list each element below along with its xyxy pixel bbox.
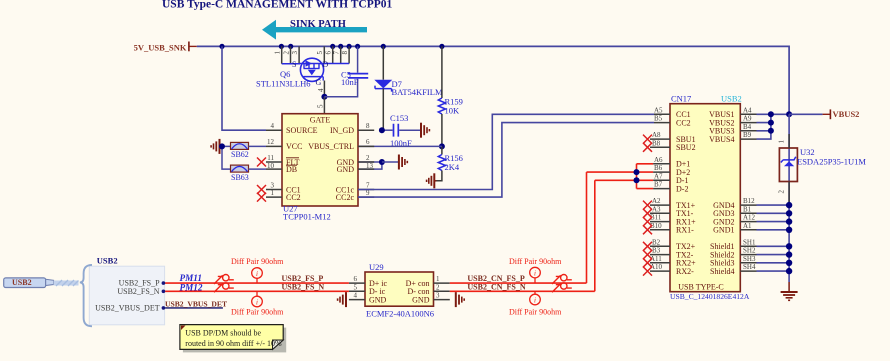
svg-text:D-2: D-2 xyxy=(676,184,688,193)
svg-text:SH2: SH2 xyxy=(743,247,756,255)
svg-text:TCPP01-M12: TCPP01-M12 xyxy=(283,211,331,221)
wire VBUS2 port link xyxy=(789,109,859,119)
ground for SB62 VCC xyxy=(211,139,222,154)
svg-text:6: 6 xyxy=(354,275,358,283)
resistor R156 xyxy=(437,146,463,180)
port 5V_USB_SNK xyxy=(134,42,197,53)
USB2 cable connector xyxy=(4,278,54,288)
svg-text:S: S xyxy=(292,60,296,69)
no-connect X on U27 pin 1 xyxy=(257,193,266,202)
svg-text:GATE: GATE xyxy=(310,116,331,125)
svg-text:3: 3 xyxy=(291,51,299,55)
labels PM11 PM12 xyxy=(180,273,203,293)
transistor Q6 symbol xyxy=(300,58,324,81)
svg-text:B1: B1 xyxy=(743,205,752,213)
svg-text:VBUS4: VBUS4 xyxy=(709,135,734,144)
svg-text:B9: B9 xyxy=(743,131,752,139)
U29 pin numbers xyxy=(354,275,441,300)
diode D7 BAT54KFILM xyxy=(374,46,443,130)
U27 left pin stubs xyxy=(266,130,282,197)
svg-text:STL11N3LLH6: STL11N3LLH6 xyxy=(256,79,310,89)
svg-text:B8: B8 xyxy=(652,139,661,147)
wire U27 pin6 VBUS_CTRL to R nodes xyxy=(358,145,442,147)
wire VBUS group to vertical bus xyxy=(757,111,793,139)
diff pair twist icon CN_FS_N xyxy=(552,283,572,293)
capacitor C153 xyxy=(382,113,421,148)
svg-text:SH3: SH3 xyxy=(743,255,756,263)
svg-text:BAT54KFILM: BAT54KFILM xyxy=(392,87,443,97)
wire USB2_CN_FS_N vertical xyxy=(594,180,596,291)
svg-text:ECMF2-40A100N6: ECMF2-40A100N6 xyxy=(366,309,434,319)
sink path arrow xyxy=(262,19,367,40)
svg-text:SH1: SH1 xyxy=(743,238,756,246)
svg-text:4: 4 xyxy=(271,122,275,130)
note marker triangle xyxy=(181,326,186,331)
svg-text:U32: U32 xyxy=(800,147,815,157)
svg-text:10nF: 10nF xyxy=(341,77,359,87)
CN17 right pin names xyxy=(709,110,734,276)
wire gate node to U27 GATE pin 5 xyxy=(323,97,325,114)
svg-text:USB2: USB2 xyxy=(721,94,742,104)
svg-text:USB Type-C MANAGEMENT WITH TCP: USB Type-C MANAGEMENT WITH TCPP01 xyxy=(162,0,392,11)
directive circle i diff pair FS_N xyxy=(252,291,263,307)
svg-text:USB2: USB2 xyxy=(12,278,32,287)
node VCC SB62 junction xyxy=(219,143,231,169)
svg-text:SINK PATH: SINK PATH xyxy=(290,19,346,30)
svg-text:RX1-: RX1- xyxy=(676,226,694,235)
svg-text:10K: 10K xyxy=(445,106,461,116)
no-connect X on U27 pin 11 xyxy=(257,158,266,167)
ESD diode U32 xyxy=(778,134,867,203)
svg-text:CC2c: CC2c xyxy=(336,193,355,202)
svg-text:B2: B2 xyxy=(652,238,661,246)
transistor Q2 source pin stubs xyxy=(282,46,300,63)
svg-text:D: D xyxy=(323,60,329,69)
CN17 right pin stubs xyxy=(740,114,756,271)
Q6 designator and value xyxy=(256,69,310,89)
svg-text:routed in 90 ohm diff +/- 10%: routed in 90 ohm diff +/- 10% xyxy=(185,339,282,348)
CN17 right pin designators xyxy=(743,106,756,271)
svg-text:USB2_FS_N: USB2_FS_N xyxy=(117,287,159,296)
svg-text:VCC: VCC xyxy=(286,142,302,151)
harness member names xyxy=(95,279,160,313)
svg-text:SOURCE: SOURCE xyxy=(286,126,318,135)
svg-text:4: 4 xyxy=(354,292,358,300)
svg-text:GND1: GND1 xyxy=(713,226,734,235)
svg-text:CC2: CC2 xyxy=(676,118,691,127)
CN17 left pin stubs xyxy=(650,114,670,271)
svg-text:ESDA25P35-1U1M: ESDA25P35-1U1M xyxy=(797,157,866,167)
svg-text:VBUS2: VBUS2 xyxy=(833,109,860,119)
filter U29 ECMF2 body xyxy=(365,272,434,306)
ground for CN17 xyxy=(781,282,798,300)
svg-text:USB2_CN_FS_N: USB2_CN_FS_N xyxy=(467,282,525,291)
ground for U29 pin3 xyxy=(456,292,464,307)
harness panel USB2 xyxy=(89,266,164,325)
svg-text:C153: C153 xyxy=(390,113,408,123)
wire D+ net jumper at CN17 xyxy=(587,164,654,189)
svg-text:VBUS_CTRL: VBUS_CTRL xyxy=(308,142,354,151)
svg-text:A12: A12 xyxy=(743,214,756,222)
svg-text:8: 8 xyxy=(366,122,370,130)
svg-text:A8: A8 xyxy=(652,131,661,139)
Q6 S D G terminal letters xyxy=(292,60,329,87)
transistor Q6 drain pin stubs xyxy=(320,46,349,63)
svg-text:USB2_FS_N: USB2_FS_N xyxy=(282,282,325,291)
note box xyxy=(180,325,283,350)
svg-text:6: 6 xyxy=(366,138,370,146)
svg-text:2K4: 2K4 xyxy=(445,162,460,172)
svg-text:USB_C_12401826E412A: USB_C_12401826E412A xyxy=(670,292,750,301)
svg-text:2: 2 xyxy=(778,190,786,194)
svg-text:A7: A7 xyxy=(654,172,663,180)
svg-text:2: 2 xyxy=(366,154,370,162)
svg-text:A1: A1 xyxy=(743,222,752,230)
svg-text:B3: B3 xyxy=(652,247,661,255)
wire USB2_CN_FS_N horizontal xyxy=(450,290,595,292)
diff pair twist icon FS_N xyxy=(214,283,234,293)
wire source branch to U27 pin4 xyxy=(222,46,266,130)
CN17 designator and harness type xyxy=(671,94,742,104)
wire Q6 gate to node xyxy=(321,81,327,100)
svg-text:2: 2 xyxy=(436,283,440,291)
ground for U27 GND pins xyxy=(399,155,407,170)
directive circle i diff pair FS_P xyxy=(252,268,263,283)
connector CN17 body xyxy=(670,104,740,292)
wire USB2_FS_P xyxy=(165,282,349,284)
svg-text:A2: A2 xyxy=(652,197,661,205)
svg-text:1: 1 xyxy=(271,189,275,197)
directive circle i diff pair CN_FS_N xyxy=(530,291,541,305)
svg-text:5: 5 xyxy=(317,104,325,108)
svg-text:6: 6 xyxy=(325,51,333,55)
svg-text:3: 3 xyxy=(436,292,440,300)
svg-text:SB63: SB63 xyxy=(231,173,249,182)
svg-text:11: 11 xyxy=(267,154,274,162)
svg-text:7: 7 xyxy=(333,51,341,55)
note box shadow xyxy=(183,328,286,353)
harness brace xyxy=(80,265,92,326)
svg-text:A5: A5 xyxy=(654,106,663,114)
svg-text:A9: A9 xyxy=(743,115,752,123)
capacitor C5 xyxy=(324,46,368,96)
svg-text:A6: A6 xyxy=(654,156,663,164)
node VBUS_CTRL junction xyxy=(439,143,445,149)
svg-text:B6: B6 xyxy=(654,164,663,172)
svg-text:USB2_VBUS_DET: USB2_VBUS_DET xyxy=(165,299,227,308)
svg-text:5: 5 xyxy=(316,51,324,55)
svg-text:SH4: SH4 xyxy=(743,263,756,271)
wire USB2_VBUS_DET xyxy=(165,307,223,309)
U27 pin names xyxy=(286,116,354,202)
no-connect X on U27 pin 3 xyxy=(257,185,266,194)
svg-text:12: 12 xyxy=(267,138,275,146)
CN17 bottom labels xyxy=(670,283,750,301)
diff pair twist icon CN_FS_P xyxy=(552,275,572,285)
U27 right pin stubs xyxy=(358,130,374,197)
svg-text:U29: U29 xyxy=(369,262,384,272)
svg-text:Shield4: Shield4 xyxy=(710,267,734,276)
Q6 source pin numbers 1 2 3 xyxy=(274,51,300,55)
svg-text:1: 1 xyxy=(436,275,440,283)
svg-text:CN17: CN17 xyxy=(671,94,691,104)
wire USB2_CN_FS_P horizontal xyxy=(450,282,587,284)
svg-text:USB DP/DM should be: USB DP/DM should be xyxy=(185,329,261,338)
note text xyxy=(185,329,282,348)
svg-text:1: 1 xyxy=(778,140,786,144)
wire U27 pin2 pin13 GND tie xyxy=(358,159,399,169)
ground for U29 pin4 xyxy=(338,292,346,307)
svg-text:B7: B7 xyxy=(654,181,663,189)
svg-text:GND: GND xyxy=(369,295,387,304)
svg-text:i: i xyxy=(534,270,536,278)
svg-text:B4: B4 xyxy=(743,123,752,131)
svg-text:A4: A4 xyxy=(743,106,752,114)
wire CC2c to CN17 CC2 xyxy=(358,123,654,198)
svg-text:DB: DB xyxy=(286,165,297,174)
svg-text:Q6: Q6 xyxy=(280,69,290,79)
note fold corner xyxy=(273,340,284,349)
svg-text:USB2_VBUS_DET: USB2_VBUS_DET xyxy=(95,304,160,313)
wire CC1c to CN17 CC1 xyxy=(358,114,654,189)
svg-text:Diff Pair 90ohm: Diff Pair 90ohm xyxy=(231,308,284,317)
CN17 left pin designators xyxy=(650,106,663,271)
wire USB2_CN_FS_P vertical xyxy=(586,172,588,283)
svg-text:i: i xyxy=(256,270,258,278)
svg-text:8: 8 xyxy=(341,51,349,55)
svg-text:IN_GD: IN_GD xyxy=(330,126,354,135)
svg-text:SBU2: SBU2 xyxy=(676,143,696,152)
svg-text:2: 2 xyxy=(282,51,290,55)
svg-text:GND: GND xyxy=(337,165,355,174)
svg-text:B12: B12 xyxy=(743,197,755,205)
wire CN17 GND pins to bus xyxy=(757,202,793,233)
svg-text:PM11: PM11 xyxy=(180,273,202,283)
svg-text:1: 1 xyxy=(274,51,282,55)
wire VBUS vertical through U32 xyxy=(788,114,790,282)
svg-text:5V_USB_SNK: 5V_USB_SNK xyxy=(134,43,187,53)
svg-text:10: 10 xyxy=(267,162,275,170)
wire CN17 shield pins to bus xyxy=(757,243,793,274)
diff pair twist icon FS_P xyxy=(214,275,234,285)
svg-text:GND: GND xyxy=(412,295,430,304)
svg-text:PM12: PM12 xyxy=(180,283,203,293)
svg-text:G: G xyxy=(316,78,322,87)
svg-text:A3: A3 xyxy=(652,205,661,213)
solder bridge SB63 xyxy=(231,165,267,182)
wire USB2_FS_N xyxy=(165,290,349,292)
no-connect X marks on CN17 unused pins xyxy=(643,135,652,276)
resistor R159 xyxy=(438,46,463,146)
svg-text:Diff Pair 90ohm: Diff Pair 90ohm xyxy=(509,308,562,317)
svg-text:RX2-: RX2- xyxy=(676,267,694,276)
U27 pin numbers xyxy=(267,122,374,197)
solder bridge SB62 xyxy=(231,142,267,159)
U29 pin stubs xyxy=(349,283,450,300)
harness connection points xyxy=(162,281,166,309)
Q6 drain pin numbers 5 6 7 8 xyxy=(316,51,349,55)
svg-text:i: i xyxy=(534,297,536,305)
cable squiggle xyxy=(54,280,79,286)
svg-text:Diff Pair 90ohm: Diff Pair 90ohm xyxy=(509,257,562,266)
svg-text:SB62: SB62 xyxy=(231,150,249,159)
svg-text:USB TYPE-C: USB TYPE-C xyxy=(678,283,723,292)
directive circle i diff pair CN_FS_P xyxy=(530,267,541,283)
wire 5V rail xyxy=(197,44,789,115)
svg-text:B5: B5 xyxy=(654,115,663,123)
U29 pin names xyxy=(369,279,430,305)
op-amp U27 TCPP01-M12 body xyxy=(282,114,358,206)
CN17 left pin names xyxy=(676,110,696,276)
svg-text:13: 13 xyxy=(366,162,374,170)
svg-text:i: i xyxy=(256,299,258,307)
svg-text:USB2: USB2 xyxy=(97,256,118,266)
junction dot at U27 pin 8 xyxy=(379,127,385,133)
ground for R156 xyxy=(427,173,437,188)
U27 designator xyxy=(283,204,331,222)
svg-text:Diff Pair 90ohm: Diff Pair 90ohm xyxy=(231,257,284,266)
U29 designator xyxy=(366,262,434,319)
svg-text:CC2: CC2 xyxy=(286,193,301,202)
ground for C153 xyxy=(421,123,429,138)
svg-text:5: 5 xyxy=(354,283,358,291)
